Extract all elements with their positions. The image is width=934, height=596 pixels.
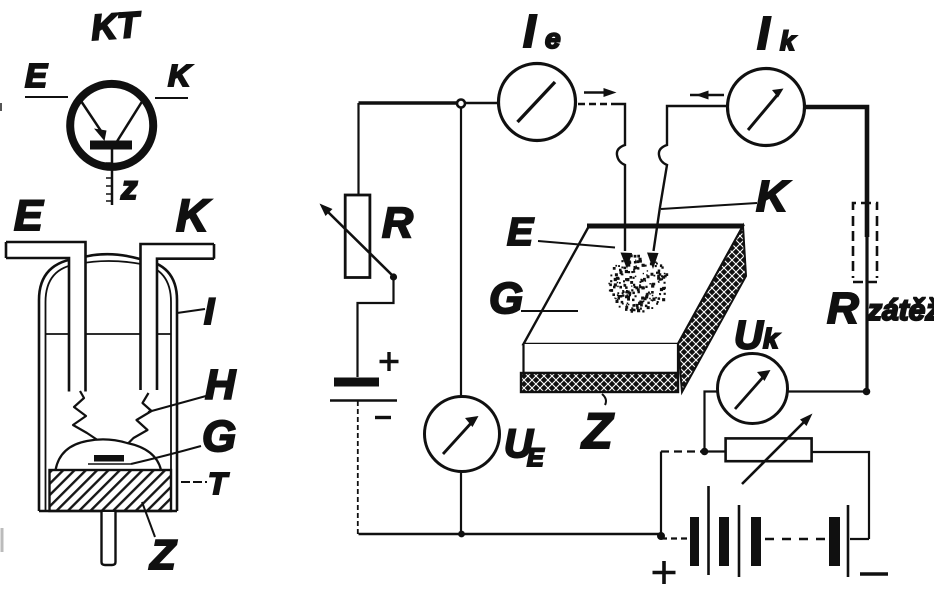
leader line to K contact [661, 203, 757, 209]
battery bank cell plate thin 2 [738, 505, 741, 577]
wire UE branch vertical [460, 107, 462, 534]
crystal chip on dome [88, 455, 131, 464]
etched region stipple [608, 253, 668, 312]
leader line to G [131, 446, 201, 464]
svg-text:KT: KT [90, 4, 144, 48]
meter Ie [499, 64, 576, 141]
label K (symbol) [168, 58, 193, 93]
node dot Uk branch [701, 448, 709, 456]
collector line inside symbol [116, 100, 143, 143]
label I [204, 291, 215, 332]
battery bank cell plate thick 3 [751, 517, 761, 566]
slab bottom electrode (crosshatched) [521, 373, 678, 392]
emitter lead tube E [6, 242, 86, 392]
wire B1 to bottom rail [357, 401, 359, 534]
thick wire from Ik to load [805, 107, 867, 392]
svg-text:T: T [208, 466, 230, 501]
collector lead tube K [141, 244, 215, 390]
base block T (hatched) [50, 470, 172, 511]
leader line to I [177, 309, 205, 313]
svg-text:E: E [507, 211, 534, 254]
battery B1 minus plate (thin) [330, 399, 397, 401]
can inner wall [46, 261, 172, 511]
scan mark at left edge [1, 103, 2, 552]
label UE [504, 422, 545, 472]
germanium slab top face [524, 226, 744, 344]
bottom rail wire [359, 533, 662, 535]
meter Ik [728, 69, 805, 146]
node dot bottom rail / UE [458, 531, 465, 538]
svg-text:E: E [25, 57, 48, 94]
label Z (can) [149, 531, 177, 578]
can bottom line [39, 510, 177, 513]
svg-text:G: G [202, 412, 236, 461]
leader line to G (slab) [521, 310, 578, 312]
rheostat R [320, 195, 394, 278]
leader line to H [148, 396, 206, 412]
label K (can) [176, 190, 212, 241]
node junction (open dot) at top wire [457, 100, 465, 108]
label Z (slab) [580, 403, 615, 459]
svg-text:G: G [489, 274, 523, 323]
svg-text:I: I [204, 291, 215, 332]
meter Uk [718, 354, 788, 424]
battery bank dashed link [765, 538, 825, 540]
emitter whisker wire [73, 391, 105, 445]
svg-text:k: k [763, 323, 780, 354]
wire R2 junction to left [705, 450, 726, 452]
battery bank cell plate thin 4 [847, 505, 850, 577]
label zatez [866, 294, 934, 327]
wire R2 right down to battery [812, 452, 869, 539]
leader tick to Z (slab) [602, 394, 606, 405]
leader line to Z [142, 502, 155, 537]
label G (slab) [489, 274, 523, 323]
slab front face [524, 344, 679, 373]
label R (load) [827, 284, 859, 333]
slab rear edge (thick) [587, 224, 744, 229]
rheostat R2 (horizontal) [726, 414, 813, 485]
base bar [90, 141, 132, 150]
svg-text:k: k [780, 26, 797, 56]
label E (symbol) [25, 57, 48, 94]
label T [208, 466, 230, 501]
wire Uk right to load wire [787, 390, 864, 392]
svg-text:z: z [120, 169, 138, 206]
battery bank cell plate thick 1 [690, 517, 699, 566]
label K (slab) [756, 172, 791, 221]
battery bank cell plate thick 2 [719, 517, 729, 566]
svg-text:I: I [757, 7, 771, 59]
svg-text:E: E [14, 192, 44, 240]
label z (symbol) [120, 169, 138, 206]
collector lead K wire [155, 97, 188, 99]
label H [205, 361, 237, 408]
wire load branch up [660, 452, 662, 537]
label - (B1) [375, 416, 391, 419]
svg-text:e: e [545, 23, 561, 54]
svg-text:K: K [176, 190, 212, 241]
leader line to E contact [538, 241, 615, 248]
label - (battery bank) [860, 572, 888, 576]
svg-text:U: U [734, 314, 764, 358]
svg-text:I: I [523, 5, 537, 57]
wire up to meter Uk [705, 392, 718, 452]
label KT [90, 4, 144, 48]
glass seal line [45, 333, 171, 335]
load resistor R zatez (dashed box) [853, 203, 877, 282]
wire bottom rail to battery bank (dashed) [661, 537, 688, 539]
meter UE [425, 397, 500, 472]
svg-text:H: H [205, 361, 237, 408]
current arrow Ik [690, 91, 724, 100]
svg-text:E: E [527, 444, 545, 472]
label + (battery bank) [653, 561, 676, 584]
base lead z wire with ticks [106, 149, 112, 205]
node dot Uk / load wire [863, 388, 871, 396]
wire to Uk/rheostat junction (dashed) [661, 450, 705, 452]
collector whisker wire [129, 393, 152, 443]
label G (can) [202, 412, 236, 461]
label E (slab) [507, 211, 534, 254]
svg-text:zátěž: zátěž [866, 294, 934, 327]
label R (rheostat) [382, 199, 413, 247]
emitter line inside symbol [81, 101, 107, 141]
battery bank cell plate thick 4 [829, 517, 840, 566]
svg-text:R: R [827, 284, 859, 333]
slab right side face (crosshatched) [678, 226, 746, 392]
germanium dome G [56, 439, 162, 470]
transistor symbol circle [70, 84, 153, 167]
wire battery to right branch [850, 538, 869, 540]
label + (B1) [380, 352, 399, 371]
label Uk [734, 314, 780, 358]
svg-text:K: K [756, 172, 791, 221]
label Ik [757, 7, 797, 59]
label E (can) [14, 192, 44, 240]
current arrow Ie [584, 88, 617, 97]
battery B1 plus plate (thick) [334, 378, 379, 387]
svg-text:K: K [168, 58, 193, 93]
leader line to T [181, 481, 207, 483]
svg-text:Z: Z [149, 531, 177, 578]
wire left branch down to rheostat R [357, 103, 359, 195]
emitter lead E wire [25, 96, 68, 98]
wire rheostat to battery B1 [358, 277, 394, 377]
can outer wall [39, 254, 177, 511]
top wire from R branch to meter Ie [359, 101, 498, 104]
wire from Ik to collector contact (with strain loop) [647, 106, 727, 269]
node dot bottom rail / load branch [657, 532, 665, 540]
svg-text:R: R [382, 199, 413, 247]
wire from Ie to emitter contact (with strain loop) [578, 104, 632, 269]
battery bank cell plate thin 1 [707, 486, 710, 575]
node dot at rheostat wiper [390, 273, 397, 280]
label Ie [523, 5, 561, 57]
svg-text:Z: Z [580, 403, 615, 459]
stem Z tube [102, 512, 116, 565]
